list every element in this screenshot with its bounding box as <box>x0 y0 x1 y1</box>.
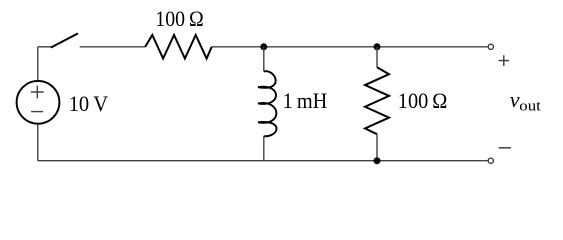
terminal: output bottom open circle <box>488 158 493 163</box>
svg-text:1 mH: 1 mH <box>283 88 328 113</box>
wire: top rail R1 to output terminal <box>212 46 489 48</box>
node: junction dot bottom of R2 branch <box>374 157 381 164</box>
wire: inductor branch bottom <box>263 136 265 161</box>
wire: left vertical bottom (source to bottom rail) <box>37 125 39 161</box>
svg-text:10 V: 10 V <box>69 91 108 116</box>
output minus sign <box>499 147 511 149</box>
svg-text:out: out <box>519 98 541 114</box>
svg-text:100 Ω: 100 Ω <box>155 6 203 31</box>
voltage source minus sign <box>31 111 43 113</box>
terminal: output top open circle <box>488 44 493 49</box>
wire: left vertical top (source to top rail) <box>37 47 39 80</box>
resistor R1 zigzag <box>145 35 212 59</box>
svg-text:100 Ω: 100 Ω <box>398 88 448 113</box>
switch SW1 blade <box>52 34 78 47</box>
voltage source V1 circle <box>17 81 60 124</box>
inductor L1 coil <box>258 71 277 136</box>
node: junction dot top of R2 branch <box>374 43 381 50</box>
resistor R2 zigzag <box>365 67 389 134</box>
svg-text:v: v <box>510 87 520 112</box>
output plus sign <box>499 55 509 66</box>
wire: inductor branch top <box>263 47 265 72</box>
wire: stub from corner to switch pivot <box>38 46 52 48</box>
wire: R2 branch bottom <box>376 134 378 161</box>
wire: top rail switch to R1 <box>80 46 146 48</box>
node: junction dot top of inductor branch <box>260 43 267 50</box>
wire: R2 branch top <box>376 47 378 67</box>
wire: bottom rail <box>38 160 488 162</box>
voltage source plus sign <box>31 86 44 99</box>
